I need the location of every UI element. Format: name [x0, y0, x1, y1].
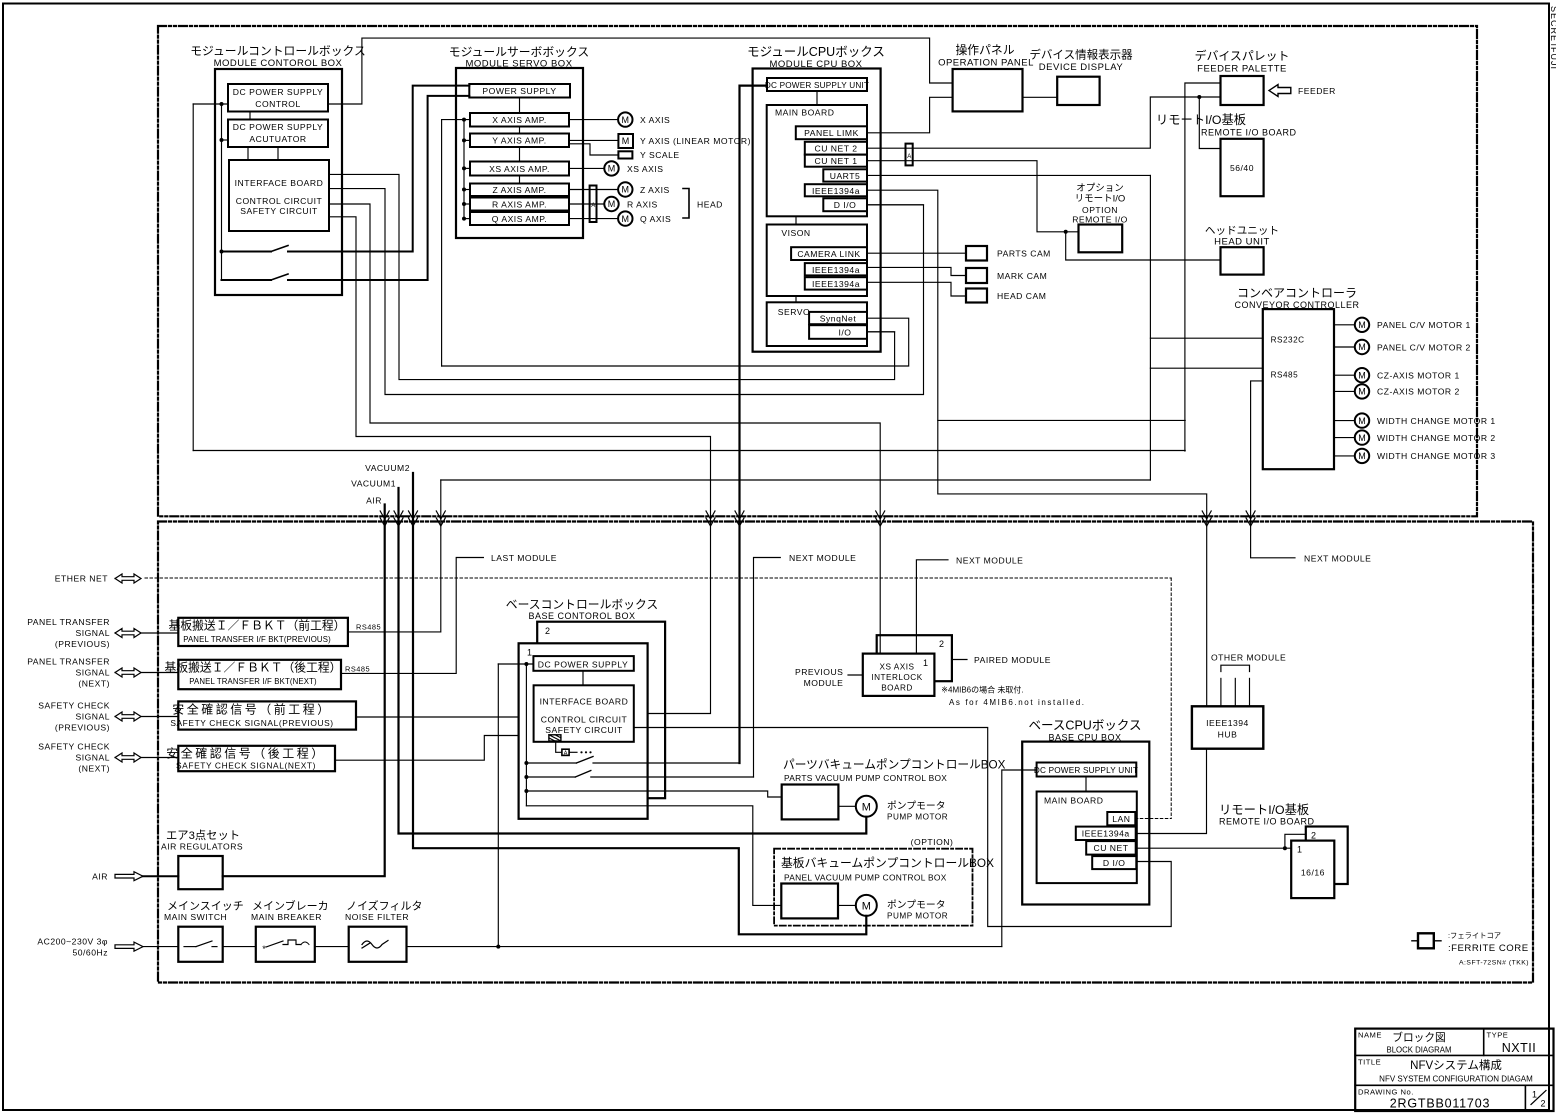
box MODULE CPU BOX	[753, 69, 881, 352]
svg-text:CONTROL: CONTROL	[255, 99, 301, 109]
svg-text:A: A	[564, 750, 568, 756]
svg-text:AIR: AIR	[366, 496, 382, 506]
svg-text:NEXT MODULE: NEXT MODULE	[789, 553, 856, 563]
motor M Z AXIS	[618, 182, 632, 196]
wire SynqNet link	[442, 318, 909, 366]
wire control box left rail	[221, 104, 223, 280]
svg-text:M: M	[1358, 387, 1366, 397]
box interlock 2	[877, 635, 952, 681]
wire base CU NET to remote boards	[1136, 847, 1292, 849]
wire 1394 to head cam	[867, 282, 965, 296]
svg-text:SERVO: SERVO	[778, 307, 810, 317]
motor M Q AXIS	[618, 211, 632, 225]
svg-text:ベースコントロールボックス: ベースコントロールボックス	[506, 598, 658, 612]
svg-text:M: M	[622, 136, 630, 146]
wire base interior rail	[525, 664, 527, 806]
svg-text:HEAD CAM: HEAD CAM	[997, 291, 1046, 301]
svg-text:M: M	[1358, 451, 1366, 461]
ferrite core A (base)	[562, 749, 569, 755]
svg-text:PANEL LIMK: PANEL LIMK	[804, 128, 859, 138]
svg-text:D I/O: D I/O	[834, 200, 857, 210]
svg-text:XS AXIS: XS AXIS	[880, 663, 915, 672]
svg-text:PANEL TRANSFER: PANEL TRANSFER	[27, 657, 110, 667]
svg-text:PANEL TRANSFER: PANEL TRANSFER	[27, 617, 110, 627]
box AIR REGULATORS	[178, 856, 222, 889]
box IEEE1394a (main board)	[805, 184, 867, 196]
svg-text:SAFETY CHECK SIGNAL(PREVIOUS): SAFETY CHECK SIGNAL(PREVIOUS)	[170, 718, 333, 728]
svg-text:メインスイッチ: メインスイッチ	[167, 900, 244, 913]
box D I/O (base)	[1092, 856, 1136, 869]
wire base dc power drop	[497, 664, 499, 947]
wire base switch1 (to module dc drop)	[526, 762, 576, 764]
svg-text:2RGTBB011703: 2RGTBB011703	[1390, 1097, 1490, 1111]
motor M WIDTH CHANGE MOTOR 2	[1334, 437, 1355, 439]
node junction option remote io	[1064, 230, 1068, 234]
svg-text:VACUUM2: VACUUM2	[365, 463, 410, 473]
svg-text:XS AXIS: XS AXIS	[627, 164, 663, 174]
box REMOTE I/O BOARD 56/40	[1221, 139, 1264, 196]
wire pt prev stub	[141, 632, 178, 634]
svg-text:*: *	[262, 944, 266, 954]
svg-text:CU NET: CU NET	[1094, 843, 1129, 853]
box BASE CPU BOX	[1022, 742, 1149, 905]
box remote io 1 16/16	[1291, 841, 1334, 899]
svg-text:ノイズフィルタ: ノイズフィルタ	[346, 899, 422, 913]
svg-text:1: 1	[1297, 845, 1303, 855]
svg-text:安全確認信号（前工程）: 安全確認信号（前工程）	[172, 702, 332, 717]
svg-text:基板搬送Ｉ／ＦＢＫＴ（後工程）: 基板搬送Ｉ／ＦＢＫＴ（後工程）	[165, 661, 342, 675]
wire Z axis motor stub	[569, 189, 618, 191]
svg-text:ブロック図: ブロック図	[1392, 1031, 1445, 1044]
box XS AXIS AMP	[470, 162, 569, 176]
svg-text:PANEL TRANSFER I/F BKT(NEXT): PANEL TRANSFER I/F BKT(NEXT)	[189, 677, 317, 686]
box base control 2	[537, 622, 665, 799]
svg-text:Z AXIS: Z AXIS	[640, 185, 670, 195]
box MAIN BOARD (module)	[767, 105, 867, 216]
box IEEE1394a (base)	[1076, 827, 1136, 840]
svg-text:OPTION: OPTION	[1082, 205, 1118, 215]
wire cpu internal connectors	[816, 91, 818, 105]
wire hub prongs	[1220, 678, 1222, 706]
wire VACUUM1 line	[399, 488, 867, 834]
box MODULE CONTROL BOX	[215, 69, 342, 295]
node cu net junction	[1283, 846, 1287, 850]
box DC POWER SUPPLY UNIT (base)	[1037, 763, 1137, 777]
svg-text:MAIN SWITCH: MAIN SWITCH	[164, 912, 227, 922]
svg-text:(NEXT): (NEXT)	[78, 764, 110, 774]
svg-text:NEXT MODULE: NEXT MODULE	[1304, 553, 1371, 563]
svg-text:2: 2	[1540, 1099, 1545, 1109]
svg-text:R AXIS: R AXIS	[627, 200, 658, 210]
svg-text:Y SCALE: Y SCALE	[640, 150, 680, 160]
svg-text:REMOTE I/O BOARD: REMOTE I/O BOARD	[1219, 817, 1315, 827]
svg-text:(OPTION): (OPTION)	[911, 837, 954, 847]
motor M X AXIS	[618, 112, 632, 126]
wire base switch2 (to next module 1)	[526, 776, 575, 778]
svg-text:PARTS CAM: PARTS CAM	[997, 249, 1051, 259]
motor M CZ-AXIS MOTOR 2	[1334, 390, 1355, 392]
box DC POWER SUPPLY CONTROL	[228, 84, 328, 112]
svg-text:AIR REGULATORS: AIR REGULATORS	[161, 842, 243, 852]
wire left drop x=193 to y=450 bus	[192, 104, 194, 451]
wire feeder palette left drop	[1185, 83, 1221, 451]
motor M pump motor (panel)	[856, 895, 877, 916]
svg-text:VISON: VISON	[781, 228, 810, 238]
svg-text:56/40: 56/40	[1230, 163, 1254, 173]
svg-text:モジュールコントロールボックス: モジュールコントロールボックス	[190, 44, 366, 58]
svg-text:ETHER NET: ETHER NET	[55, 574, 108, 584]
wire LAST MODULE riser + label stub	[341, 558, 483, 674]
node junction dots on control box left rail	[220, 102, 224, 106]
svg-text:ヘッドユニット: ヘッドユニット	[1205, 225, 1279, 237]
svg-text:1: 1	[527, 648, 533, 658]
wire pt next stub	[141, 672, 178, 674]
wire SynqNet riser	[441, 120, 443, 366]
box DEVICE DISPLAY	[1057, 77, 1099, 105]
svg-text:コンベアコントローラ: コンベアコントローラ	[1237, 286, 1357, 300]
wire 1394 to mark cam	[867, 267, 965, 275]
box DC POWER SUPPLY (base)	[533, 656, 633, 671]
svg-text:2: 2	[1311, 831, 1317, 841]
box PARTS CAM	[966, 246, 987, 261]
svg-text:INTERLOCK: INTERLOCK	[871, 673, 922, 682]
svg-text:パーツバキュームポンプコントロールBOX: パーツバキュームポンプコントロールBOX	[783, 759, 1006, 772]
svg-text:X AXIS AMP.: X AXIS AMP.	[492, 115, 547, 125]
svg-text:WIDTH CHANGE MOTOR 3: WIDTH CHANGE MOTOR 3	[1377, 451, 1496, 461]
svg-text:PANEL VACUUM PUMP CONTROL BOX: PANEL VACUUM PUMP CONTROL BOX	[784, 873, 947, 883]
wire interface board out3 to interlock	[329, 204, 880, 654]
svg-text:OPERATION PANEL: OPERATION PANEL	[938, 58, 1034, 69]
box POWER SUPPLY	[469, 84, 570, 98]
svg-text:ポンプモータ: ポンプモータ	[887, 899, 946, 911]
box Z AXIS AMP	[470, 184, 569, 197]
svg-text:DC POWER SUPPLY: DC POWER SUPPLY	[233, 122, 323, 132]
wire servo internal connectors	[519, 98, 521, 114]
wire operation panel to device display	[1023, 96, 1058, 98]
svg-text:PANEL TRANSFER I/F BKT(PREVIOU: PANEL TRANSFER I/F BKT(PREVIOUS)	[183, 635, 331, 644]
svg-text:INTERFACE BOARD: INTERFACE BOARD	[540, 697, 629, 707]
symbol arrow air	[115, 872, 143, 881]
wire X axis motor stub	[569, 119, 618, 121]
symbol hatched connector	[549, 735, 561, 741]
svg-text:Q AXIS AMP.: Q AXIS AMP.	[492, 214, 548, 224]
wire ac stub	[143, 946, 178, 948]
wire dc power control left stub	[193, 103, 228, 105]
box IEEE1394a (vision 1)	[805, 263, 867, 275]
svg-text:デバイスパレット: デバイスパレット	[1195, 49, 1290, 63]
svg-text:Q AXIS: Q AXIS	[640, 214, 671, 224]
symbol border arrow x=440.8	[436, 511, 445, 526]
symbol other module bracket	[1221, 665, 1250, 671]
svg-text:CONTROL CIRCUIT: CONTROL CIRCUIT	[236, 196, 323, 206]
svg-text:リモートI/O: リモートI/O	[1075, 194, 1126, 205]
box base control 1	[519, 643, 648, 819]
svg-text:NXTII: NXTII	[1502, 1041, 1536, 1055]
svg-text:WIDTH CHANGE MOTOR 2: WIDTH CHANGE MOTOR 2	[1377, 433, 1496, 443]
box MARK CAM	[966, 268, 987, 283]
wire RS485 drop to next module	[1251, 381, 1295, 558]
symbol Y SCALE	[618, 151, 632, 158]
symbol arrow pt next	[115, 668, 141, 677]
wire interface board out4 to base interface	[329, 217, 711, 714]
box OPTION REMOTE I/O	[1079, 225, 1123, 253]
symbol border arrow x=384.7	[380, 511, 389, 526]
motor M PANEL C/V MOTOR 2	[1334, 346, 1355, 348]
svg-text:IEEE1394a: IEEE1394a	[812, 279, 860, 289]
svg-text:M: M	[1358, 416, 1366, 426]
box parts vacuum pump control	[782, 785, 839, 820]
wire XS axis motor stub	[569, 167, 604, 169]
motor M WIDTH CHANGE MOTOR 3	[1334, 455, 1355, 457]
symbol border arrow x=710.5	[706, 511, 715, 526]
svg-text:SAFETY CIRCUIT: SAFETY CIRCUIT	[545, 725, 623, 735]
svg-text:ベースCPUボックス: ベースCPUボックス	[1029, 719, 1142, 733]
svg-text:SAFETY CHECK: SAFETY CHECK	[38, 742, 110, 752]
symbol main switch contact	[184, 946, 196, 948]
box CU NET (base)	[1086, 841, 1136, 855]
svg-text:基板バキュームポンプコントロールBOX: 基板バキュームポンプコントロールBOX	[781, 856, 994, 870]
box INTERFACE BOARD (module)	[229, 160, 329, 231]
svg-text:Z AXIS AMP.: Z AXIS AMP.	[492, 185, 546, 195]
wire dc control to operation panel	[328, 38, 953, 104]
svg-text:I/O: I/O	[839, 328, 852, 338]
svg-text:MAIN BOARD: MAIN BOARD	[775, 108, 834, 118]
legend ferrite core symbol	[1412, 940, 1418, 942]
svg-text:2: 2	[545, 626, 551, 636]
title block dividers	[1355, 1054, 1553, 1056]
symbol border arrow x=1250.6	[1246, 511, 1255, 526]
wire Q axis motor stub	[569, 218, 618, 220]
wire safety next to base	[335, 736, 534, 761]
wire base cpu connector	[1085, 777, 1087, 792]
wire base dc-interface connector	[582, 671, 584, 686]
symbol filter tilde	[362, 941, 388, 949]
svg-text:UART5: UART5	[830, 171, 861, 181]
wire LAST MODULE bus	[441, 479, 1151, 481]
svg-text:M: M	[1358, 370, 1366, 380]
svg-text:NFV SYSTEM CONFIGURATION DIAGA: NFV SYSTEM CONFIGURATION DIAGAM	[1379, 1075, 1533, 1084]
svg-text:A:SFT-72SN# (TKK): A:SFT-72SN# (TKK)	[1459, 960, 1529, 967]
wire y450 bus (control box to feeder rail)	[193, 450, 1185, 452]
svg-text:SIGNAL: SIGNAL	[75, 668, 110, 678]
svg-text:DC POWER SUPPLY: DC POWER SUPPLY	[538, 660, 628, 670]
motor M Y AXIS linear	[618, 134, 633, 148]
svg-text:INTERFACE BOARD: INTERFACE BOARD	[235, 178, 324, 188]
wire UART5 riser bus	[867, 174, 1150, 176]
motor M R AXIS	[604, 197, 618, 211]
svg-text:NAME: NAME	[1358, 1031, 1382, 1040]
svg-text:TYPE: TYPE	[1487, 1031, 1509, 1040]
box option dashed	[774, 849, 972, 926]
wire cu net branch to board2	[1285, 834, 1306, 848]
svg-text:RS485: RS485	[345, 665, 370, 674]
svg-text:SIGNAL: SIGNAL	[75, 628, 110, 638]
node ac junction	[496, 945, 500, 949]
box DC POWER SUPPLY UNIT (module)	[767, 78, 867, 91]
svg-text:DC POWER SUPPLY: DC POWER SUPPLY	[233, 87, 323, 97]
box IEEE1394a (vision 2)	[805, 277, 867, 289]
node base rail dots	[524, 662, 528, 666]
svg-text:DRAWING No.: DRAWING No.	[1358, 1088, 1414, 1097]
box LAN	[1107, 812, 1135, 825]
wire ETHER NET dotted bus	[145, 577, 1171, 579]
svg-text:M: M	[1358, 433, 1366, 443]
wire parts pump feed	[526, 791, 781, 797]
svg-text:CAMERA LINK: CAMERA LINK	[797, 249, 860, 259]
wire VACUUM2 line	[413, 473, 866, 934]
svg-text:ACUTUATOR: ACUTUATOR	[249, 134, 306, 144]
wire base 1394 to hub	[1136, 749, 1207, 834]
box PANEL TRANSFER I/F BKT PREVIOUS	[178, 618, 348, 646]
symbol FEEDER arrow	[1269, 85, 1291, 97]
svg-text:RS232C: RS232C	[1271, 336, 1305, 345]
svg-text:PUMP MOTOR: PUMP MOTOR	[887, 813, 948, 822]
svg-text:REMOTE I/O BOARD: REMOTE I/O BOARD	[1201, 128, 1297, 138]
svg-text:IEEE1394a: IEEE1394a	[812, 265, 860, 275]
svg-text:ポンプモータ: ポンプモータ	[887, 800, 946, 812]
box Q AXIS AMP	[470, 212, 569, 225]
svg-text:PARTS VACUUM PUMP CONTROL BOX: PARTS VACUUM PUMP CONTROL BOX	[784, 773, 947, 783]
wire base cpu power riser	[1002, 770, 1037, 947]
svg-text:メインブレーカ: メインブレーカ	[252, 899, 329, 913]
wire switch1 feed to servo power supply	[222, 251, 272, 253]
wire tap RS485	[1150, 367, 1262, 369]
box INTERFACE BOARD (base)	[534, 685, 634, 742]
svg-text:NOISE FILTER: NOISE FILTER	[345, 912, 409, 922]
svg-text:IEEE1394a: IEEE1394a	[1082, 829, 1130, 839]
svg-text:RS485: RS485	[356, 623, 381, 632]
svg-text:リモートI/O基板: リモートI/O基板	[1156, 113, 1246, 127]
wire IEEE1394a trunk down	[867, 190, 1207, 706]
svg-text:CU NET 2: CU NET 2	[815, 144, 858, 154]
symbol arrow sc prev	[115, 712, 141, 721]
box SERVO section	[767, 302, 867, 346]
wire switch2 feed to servo power supply	[222, 279, 272, 281]
svg-text:CU NET 1: CU NET 1	[815, 156, 858, 166]
svg-text:As for 4MIB6.not installed.: As for 4MIB6.not installed.	[949, 698, 1086, 707]
box MAIN BREAKER	[256, 927, 315, 962]
svg-text:WIDTH CHANGE MOTOR 1: WIDTH CHANGE MOTOR 1	[1377, 416, 1496, 426]
box interlock 1 XS AXIS INTERLOCK BOARD	[863, 654, 935, 696]
motor M XS AXIS	[604, 161, 618, 175]
wire option branch to head unit	[1066, 232, 1221, 260]
wire 1394 branch to feeder palette rail	[938, 419, 1185, 421]
svg-text:REMOTE I/O: REMOTE I/O	[1072, 215, 1128, 225]
wire connector to ferrite	[556, 741, 562, 752]
svg-text:FEEDER PALETTE: FEEDER PALETTE	[1197, 64, 1287, 75]
svg-text:A: A	[907, 154, 911, 160]
wire servo amp left chain rail	[463, 120, 465, 219]
wire amp left stubs	[442, 119, 470, 121]
module section dash-dot border	[158, 26, 1477, 516]
svg-text:NEXT MODULE: NEXT MODULE	[956, 555, 1023, 565]
wire control-actuator connector	[249, 112, 251, 120]
svg-text:SIGNAL: SIGNAL	[75, 753, 110, 763]
symbol arrow pt prev	[115, 629, 141, 638]
box SAFETY CHECK SIGNAL NEXT	[178, 746, 335, 771]
symbol border arrow x=1206.7	[1202, 511, 1211, 526]
wire panel limk to operation panel	[867, 97, 953, 133]
svg-text:TITLE: TITLE	[1358, 1058, 1381, 1067]
wire sc prev stub	[141, 716, 178, 718]
svg-text:DEVICE DISPLAY: DEVICE DISPLAY	[1039, 62, 1124, 73]
svg-text:モジュールCPUボックス: モジュールCPUボックス	[747, 45, 885, 59]
svg-text:RS485: RS485	[1271, 371, 1299, 380]
wire sc next stub	[141, 757, 178, 759]
svg-text:X AXIS: X AXIS	[640, 115, 670, 125]
box OPERATION PANEL	[953, 69, 1023, 111]
svg-text:FEEDER: FEEDER	[1298, 86, 1336, 96]
svg-text:IEEE1394a: IEEE1394a	[812, 186, 860, 196]
svg-text:SIGNAL: SIGNAL	[75, 712, 110, 722]
wire NEXT MODULE 2 riser	[916, 560, 948, 654]
svg-text:CZ-AXIS MOTOR 1: CZ-AXIS MOTOR 1	[1377, 371, 1460, 381]
wire camera link to parts cam	[867, 252, 966, 254]
symbol border arrow x=880.2	[876, 511, 885, 526]
svg-text:1: 1	[923, 658, 929, 668]
svg-text:SAFETY CHECK SIGNAL(NEXT): SAFETY CHECK SIGNAL(NEXT)	[176, 761, 316, 771]
wire tap RS232C	[1150, 337, 1262, 339]
svg-text:M: M	[622, 115, 630, 125]
svg-text:PREVIOUS: PREVIOUS	[795, 667, 843, 677]
wire panel pump feed	[526, 806, 781, 906]
box panel vacuum pump control	[781, 884, 838, 919]
svg-text:(PREVIOUS): (PREVIOUS)	[55, 723, 110, 733]
svg-text:(PREVIOUS): (PREVIOUS)	[55, 639, 110, 649]
box VISON	[767, 225, 867, 297]
wire AIR line	[223, 505, 385, 877]
svg-text:PAIRED MODULE: PAIRED MODULE	[974, 655, 1051, 665]
wire base dc supply feed	[498, 663, 533, 665]
box CONVEYOR CONTROLLER	[1263, 309, 1334, 469]
svg-text:AC200~230V 3φ: AC200~230V 3φ	[37, 937, 108, 947]
box HEAD UNIT	[1221, 247, 1264, 274]
symbol border arrow x=413	[409, 511, 418, 526]
base section dash-dot border	[158, 522, 1533, 983]
symbol ETHER NET arrow	[115, 574, 141, 583]
svg-text:LAN: LAN	[1112, 814, 1130, 824]
wire interface board out2 to cpu D I/O	[329, 189, 924, 395]
svg-text:M: M	[1358, 342, 1366, 352]
svg-text:CZ-AXIS MOTOR 2: CZ-AXIS MOTOR 2	[1377, 387, 1460, 397]
wire Y scale stub	[569, 144, 618, 155]
svg-text:HUB: HUB	[1218, 730, 1238, 740]
wire panel pump to motor	[838, 904, 856, 906]
box MAIN BOARD (base)	[1037, 792, 1137, 884]
ferrite core A (servo head wires)	[590, 186, 597, 223]
svg-text:SECRET: SECRET	[1549, 6, 1556, 49]
box IEEE1394 HUB	[1192, 706, 1263, 748]
wire Y axis motor stub	[569, 139, 618, 141]
svg-text:MODULE CONTOROL BOX: MODULE CONTOROL BOX	[214, 58, 343, 69]
wire R axis motor stub	[569, 203, 604, 205]
node amp chain dots	[462, 118, 466, 122]
svg-text:(NEXT): (NEXT)	[78, 679, 110, 689]
svg-text:16/16: 16/16	[1301, 868, 1325, 878]
svg-text:2: 2	[939, 639, 945, 649]
box D I/O (module)	[823, 198, 867, 211]
wire branch to remote io board 56/40	[1199, 97, 1220, 149]
box PANEL LIMK	[796, 126, 867, 139]
svg-text:モジュールサーボボックス: モジュールサーボボックス	[449, 45, 589, 59]
svg-text:1: 1	[1532, 1090, 1537, 1100]
wire dc power supply unit drop (thick)	[740, 86, 768, 763]
svg-text:FUJI: FUJI	[1549, 47, 1556, 70]
svg-text:PANEL C/V MOTOR 2: PANEL C/V MOTOR 2	[1377, 342, 1471, 352]
box I/O (servo)	[809, 325, 867, 339]
svg-text:エア3点セット: エア3点セット	[166, 829, 240, 842]
box CAMERA LINK	[791, 247, 867, 260]
